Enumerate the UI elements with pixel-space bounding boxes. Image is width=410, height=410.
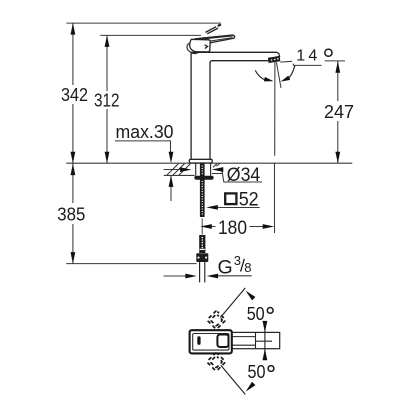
14deg right curved arrow [280,66,295,84]
svg-text:Ø34: Ø34 [227,165,261,186]
G3/8 fitting nut [196,253,208,262]
dimension 180 [200,163,274,239]
svg-text:G: G [218,256,233,278]
water stream 14deg tilted line [276,62,281,88]
spout aerator [268,56,280,62]
label diameter 34 with leaders [164,165,263,186]
raised handle indicator (double slash) [205,23,221,34]
svg-text:312: 312 [94,90,120,110]
threaded mounting rod [200,163,205,217]
deck top line [66,162,352,164]
label square 52 with leader [206,189,259,210]
50deg upper leg with arrow [220,288,255,318]
dimension 385 [57,163,85,263]
deck bottom line left [164,174,195,176]
top view handle block (bold) [190,330,232,353]
label max.30 with leader [115,122,174,201]
svg-text:50: 50 [247,304,265,324]
top view body rectangle [190,332,280,348]
svg-text:14: 14 [296,48,320,65]
axis line between rod and stub [201,219,203,235]
label G 3/8 with leaders [164,253,252,279]
svg-text:8: 8 [244,260,251,275]
base flange [189,159,212,163]
svg-text:max.30: max.30 [116,122,174,142]
dashed handle position (lower 50deg) [207,352,226,371]
svg-text:180: 180 [218,218,247,239]
supply pipe [200,262,205,282]
dimension 342 [61,23,88,163]
faucet handle base (cartridge cover, sketchy) [187,39,210,53]
bottom extension line (hose end level) [66,263,196,265]
extension line spout-lever level [100,34,201,36]
dimension 247 with 14deg leader [280,48,354,164]
svg-text:50: 50 [248,362,266,382]
deck bottom line right [212,173,222,175]
deck hatch right [213,164,220,168]
50deg vertical reference arrows [263,321,268,360]
50deg lower leg with arrow [221,365,256,394]
dimension 312 [94,35,120,163]
svg-text:247: 247 [324,102,354,122]
deck hole edges [195,163,197,175]
svg-text:3: 3 [234,253,241,268]
mounting washer [194,176,213,180]
faucet body outline (main view) [191,52,280,159]
threaded stub (lower) [199,235,205,253]
14deg left curved arrow [255,70,274,83]
faucet handle lever (rest position) [195,35,235,44]
extension line top (handle top level) [66,22,221,24]
deck hatch left [167,164,191,176]
water stream vertical reference line [274,62,276,156]
svg-text:385: 385 [57,204,85,225]
dashed handle position (upper 50deg) [207,311,226,330]
svg-text:342: 342 [61,85,88,105]
